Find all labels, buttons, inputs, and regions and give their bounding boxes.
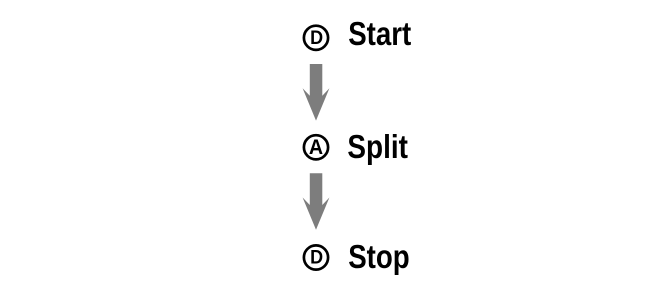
arrow from Split to Stop — [303, 173, 330, 230]
svg-text:Start: Start — [348, 15, 411, 52]
svg-text:D: D — [310, 27, 323, 49]
svg-text:A: A — [309, 136, 323, 159]
svg-text:Split: Split — [347, 128, 408, 165]
node Stop: circled D symbol — [304, 245, 328, 269]
svg-text:Stop: Stop — [348, 238, 410, 275]
arrow from Start to Split — [303, 64, 330, 121]
svg-text:D: D — [310, 247, 323, 269]
node Split: circled A symbol — [304, 135, 328, 159]
node Start: circled D symbol — [304, 26, 328, 50]
